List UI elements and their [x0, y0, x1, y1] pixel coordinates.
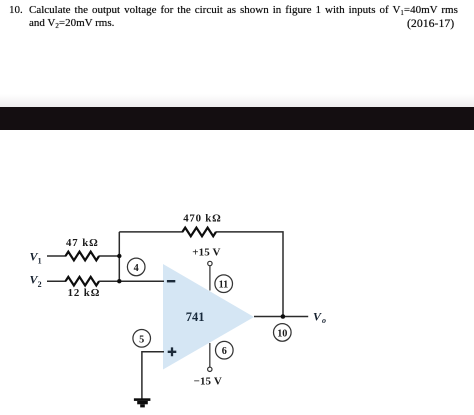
svg-text:−15 V: −15 V: [194, 375, 222, 387]
wire node A vertical: [118, 232, 120, 281]
svg-text:4: 4: [134, 263, 139, 274]
svg-text:6: 6: [222, 346, 227, 357]
wire feedback right: [216, 232, 283, 317]
svg-text:1: 1: [38, 257, 42, 266]
wire V1 input: [47, 255, 66, 257]
junction node A1: [117, 254, 121, 258]
svg-text:5: 5: [139, 334, 144, 345]
svg-text:+15 V: +15 V: [192, 247, 220, 259]
non-inverting input plus sign: [168, 347, 177, 356]
svg-text:12 kΩ: 12 kΩ: [68, 287, 101, 299]
wire pin 6: [209, 343, 211, 367]
svg-text:470 kΩ: 470 kΩ: [183, 213, 221, 225]
svg-text:47 kΩ: 47 kΩ: [66, 237, 99, 249]
svg-text:o: o: [322, 316, 326, 325]
inverting input minus sign: [167, 280, 175, 282]
question text line 1: [9, 5, 23, 16]
junction output node: [281, 314, 286, 319]
resistor R2 12k zigzag: [66, 277, 100, 286]
question text line 2: [29, 18, 114, 30]
supply +15V terminal: [208, 261, 212, 265]
svg-text:2: 2: [38, 280, 42, 289]
ground: [134, 398, 151, 401]
svg-text:11: 11: [219, 280, 229, 291]
pin 11 circle: [215, 275, 233, 293]
svg-text:741: 741: [186, 310, 205, 324]
wire non-inverting input to ground: [142, 352, 164, 399]
pin 10 circle: [274, 324, 292, 342]
pin 4 circle: [127, 258, 145, 276]
svg-text:V: V: [313, 310, 322, 324]
resistor R1 47k zigzag: [66, 252, 100, 261]
faint scan shading above bar: [0, 94, 474, 107]
wire feedback left: [119, 231, 183, 233]
wire pin 11: [209, 266, 211, 291]
svg-text:10: 10: [277, 328, 287, 339]
pin 5 circle: [133, 330, 151, 348]
junction node A2: [117, 279, 121, 283]
black divider bar: [0, 107, 474, 130]
resistor R3 470k zigzag: [182, 228, 216, 237]
wire R1 to node A: [99, 255, 119, 257]
year label: [407, 18, 454, 29]
wire output: [254, 316, 308, 318]
supply -15V terminal: [208, 367, 212, 371]
op-amp U1 741 body: [163, 264, 254, 370]
wire V2 input: [47, 280, 66, 282]
pin 6 circle: [216, 341, 234, 359]
wire R2 to node A to op-amp inverting input: [99, 280, 164, 282]
